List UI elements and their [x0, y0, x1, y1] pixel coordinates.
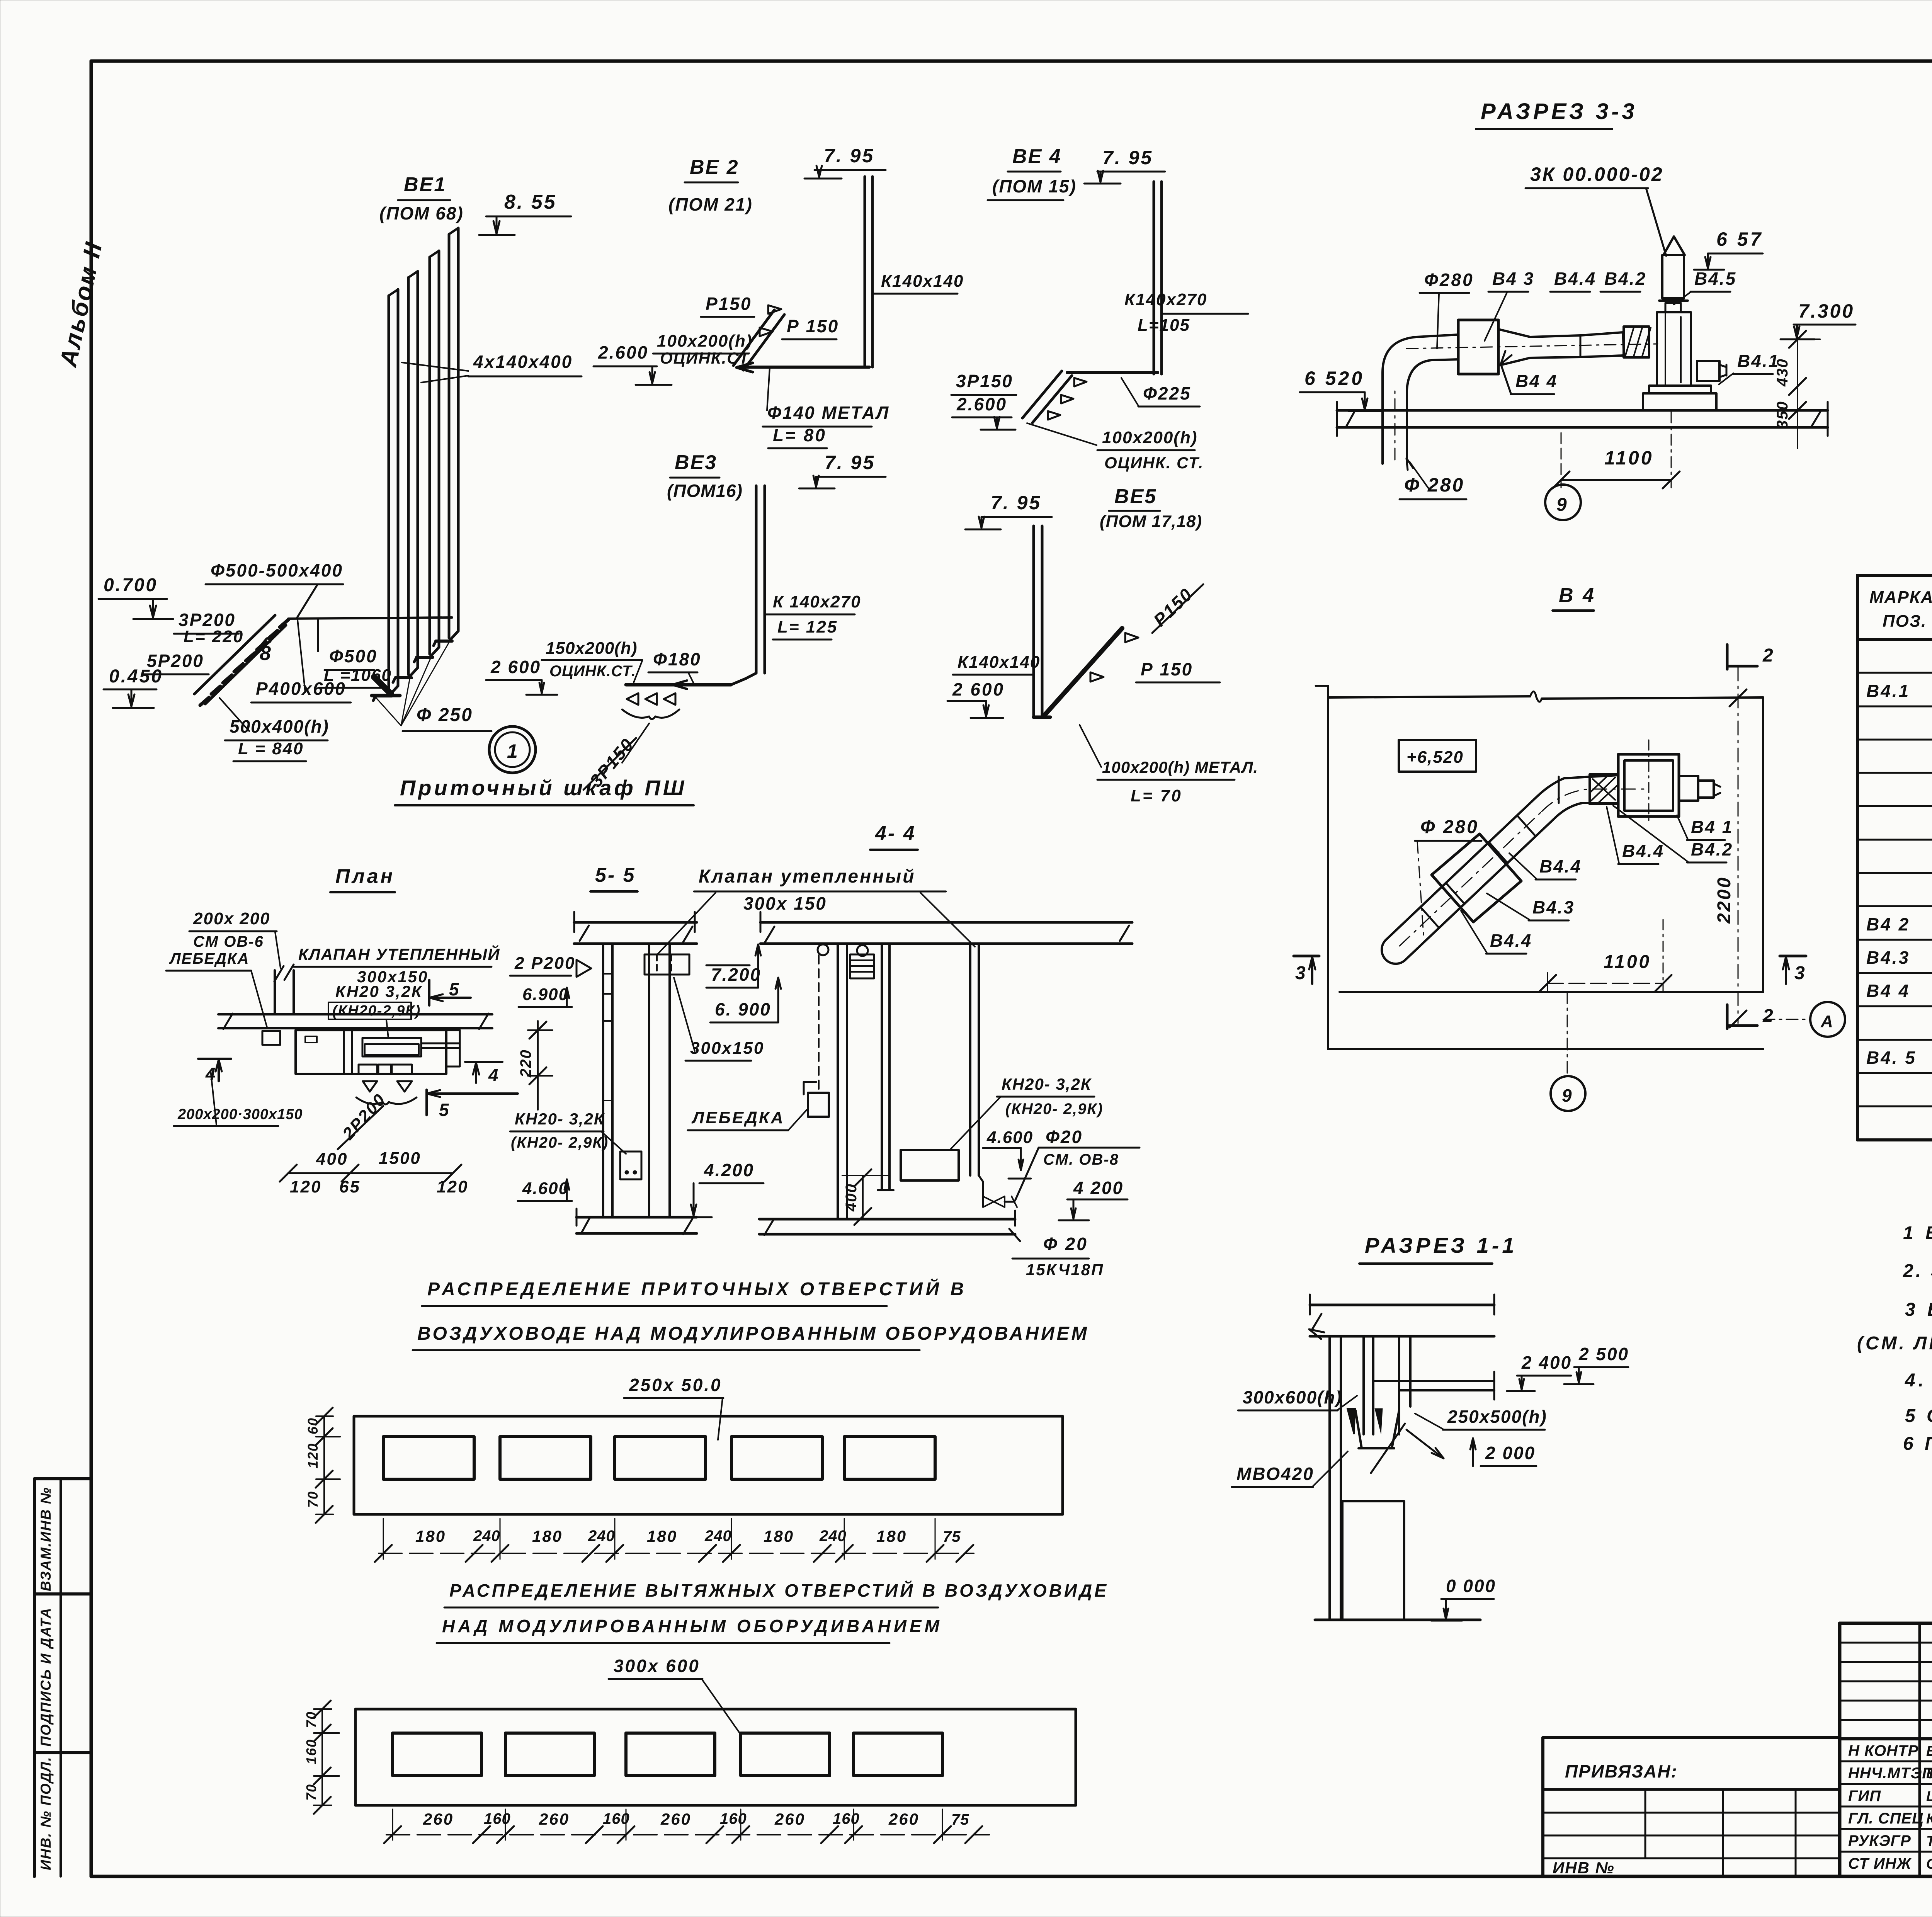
svg-text:В4.4: В4.4: [1554, 269, 1596, 289]
svg-text:Приточный шкаф ПШ: Приточный шкаф ПШ: [400, 776, 687, 800]
svg-text:ЛЕБЕДКА: ЛЕБЕДКА: [169, 950, 250, 967]
svg-text:300х 600: 300х 600: [614, 1656, 700, 1676]
svg-text:0 000: 0 000: [1446, 1576, 1496, 1596]
svg-text:А: А: [1820, 1012, 1834, 1031]
svg-text:СМ. ОВ-8: СМ. ОВ-8: [1043, 1151, 1119, 1168]
svg-text:БЕГАНСКАЯ: БЕГАНСКАЯ: [1926, 1766, 1932, 1781]
svg-text:250х 50.0: 250х 50.0: [629, 1375, 722, 1395]
svg-text:В4. 5: В4. 5: [1866, 1048, 1917, 1068]
svg-text:100х200(h): 100х200(h): [1102, 428, 1197, 447]
svg-text:6 520: 6 520: [1304, 367, 1364, 389]
svg-text:0.700: 0.700: [104, 575, 158, 595]
svg-text:ИНВ. № ПОДЛ.: ИНВ. № ПОДЛ.: [38, 1756, 54, 1870]
svg-text:2 000: 2 000: [1485, 1443, 1536, 1463]
svg-text:160: 160: [484, 1810, 511, 1827]
svg-text:7. 95: 7. 95: [991, 492, 1041, 514]
svg-text:Ф 250: Ф 250: [417, 705, 473, 725]
svg-text:200х200·300х150: 200х200·300х150: [177, 1106, 303, 1123]
svg-text:(ПОМ 15): (ПОМ 15): [992, 176, 1077, 196]
svg-text:КЛАПАН УТЕПЛЕННЫЙ: КЛАПАН УТЕПЛЕННЫЙ: [298, 944, 500, 963]
svg-text:1100: 1100: [1604, 952, 1651, 972]
svg-text:7.300: 7.300: [1798, 300, 1854, 322]
svg-text:ВЕ3: ВЕ3: [675, 451, 717, 474]
svg-text:КН20 3,2К: КН20 3,2К: [335, 982, 423, 1000]
svg-text:Ф20: Ф20: [1046, 1127, 1083, 1147]
svg-text:БЕЛОЦЕРКОВСКАЯ: БЕЛОЦЕРКОВСКАЯ: [1926, 1743, 1932, 1759]
svg-text:6 ПЛАН 1 ЭТАЖА К РАЗРЕЗУ: 6 ПЛАН 1 ЭТАЖА К РАЗРЕЗУ 1-1 СМ ЛИСТ ОВ-…: [1903, 1434, 1932, 1454]
svg-text:L = 840: L = 840: [238, 739, 304, 758]
svg-text:В4.1: В4.1: [1866, 681, 1910, 701]
svg-text:1500: 1500: [379, 1149, 421, 1168]
svg-text:4- 4: 4- 4: [875, 822, 916, 845]
svg-text:МАРКА,: МАРКА,: [1869, 588, 1932, 607]
svg-text:400: 400: [316, 1150, 348, 1169]
svg-text:Р150: Р150: [706, 294, 752, 314]
svg-text:430: 430: [1774, 358, 1791, 387]
svg-text:ОЦИНК. СТ.: ОЦИНК. СТ.: [1104, 454, 1204, 472]
svg-text:ПРИВЯЗАН:: ПРИВЯЗАН:: [1565, 1761, 1678, 1781]
svg-text:РАСПРЕДЕЛЕНИЕ ПРИТОЧНЫХ ОТВ: РАСПРЕДЕЛЕНИЕ ПРИТОЧНЫХ ОТВЕРСТИЙ В: [427, 1278, 967, 1300]
svg-text:В4.2: В4.2: [1691, 839, 1733, 859]
svg-text:ВЕ5: ВЕ5: [1114, 485, 1157, 508]
svg-text:Ф500: Ф500: [329, 646, 378, 666]
svg-text:L= 220: L= 220: [184, 627, 244, 646]
svg-text:160: 160: [720, 1810, 747, 1827]
svg-text:Ф180: Ф180: [653, 649, 701, 669]
svg-text:ВЕ 4: ВЕ 4: [1012, 145, 1062, 168]
svg-text:СМ ОВ-6: СМ ОВ-6: [193, 933, 264, 950]
svg-text:Клапан утепленный: Клапан утепленный: [699, 866, 915, 887]
svg-text:65: 65: [339, 1177, 361, 1196]
svg-text:75: 75: [943, 1528, 961, 1545]
svg-text:L= 125: L= 125: [777, 617, 838, 636]
svg-text:7. 95: 7. 95: [1102, 147, 1153, 168]
svg-text:В4 4: В4 4: [1866, 981, 1910, 1001]
svg-text:В 4: В 4: [1559, 584, 1596, 607]
svg-text:160: 160: [303, 1739, 319, 1764]
svg-text:Ф 20: Ф 20: [1043, 1234, 1088, 1254]
svg-text:ННЧ.МТЭП: ННЧ.МТЭП: [1848, 1765, 1932, 1782]
svg-text:4х140х400: 4х140х400: [473, 352, 573, 372]
svg-text:ВЕ1: ВЕ1: [404, 173, 446, 196]
svg-text:1100: 1100: [1604, 447, 1654, 469]
svg-text:2.600: 2.600: [598, 342, 648, 362]
svg-text:7.200: 7.200: [711, 964, 761, 985]
svg-text:2 600: 2 600: [952, 679, 1005, 699]
svg-text:6. 900: 6. 900: [715, 999, 771, 1019]
svg-text:L=105: L=105: [1138, 316, 1190, 335]
svg-text:3К 00.000-02: 3К 00.000-02: [1530, 163, 1664, 185]
svg-text:Р 150: Р 150: [1141, 659, 1193, 679]
svg-text:(ПОМ16): (ПОМ16): [667, 481, 743, 501]
svg-text:6 57: 6 57: [1716, 228, 1763, 250]
svg-text:СТ ИНЖ: СТ ИНЖ: [1848, 1855, 1912, 1872]
svg-text:ОЦИНК.СТ: ОЦИНК.СТ: [660, 349, 750, 367]
svg-text:4. КОНСТРУКЦИЮ ПРИТОЧНОГО ШК: 4. КОНСТРУКЦИЮ ПРИТОЧНОГО ШКАФА СМ. АС-9…: [1905, 1370, 1932, 1391]
svg-text:120: 120: [437, 1177, 468, 1196]
svg-text:70: 70: [305, 1491, 321, 1508]
svg-text:350: 350: [1774, 401, 1791, 429]
svg-text:180: 180: [647, 1527, 677, 1545]
svg-text:300х 150: 300х 150: [743, 893, 827, 913]
svg-text:220: 220: [517, 1049, 534, 1078]
svg-text:В4.2: В4.2: [1604, 269, 1646, 289]
svg-text:ИНВ №: ИНВ №: [1553, 1859, 1615, 1877]
svg-text:В4 2: В4 2: [1866, 914, 1910, 934]
svg-text:120: 120: [305, 1443, 321, 1468]
svg-text:ПОЗ.: ПОЗ.: [1883, 612, 1927, 631]
svg-text:100х200(h): 100х200(h): [657, 332, 752, 350]
svg-text:4.200: 4.200: [704, 1160, 754, 1180]
svg-text:4.600: 4.600: [522, 1179, 569, 1198]
svg-text:260: 260: [539, 1810, 570, 1828]
svg-text:4: 4: [488, 1065, 500, 1085]
svg-text:260: 260: [660, 1810, 691, 1828]
svg-text:(СМ. ЛИСТ ОВ2 П. 11): (СМ. ЛИСТ ОВ2 П. 11): [1857, 1333, 1932, 1354]
svg-text:ВЗАМ.ИНВ №: ВЗАМ.ИНВ №: [38, 1487, 54, 1591]
svg-text:В4 3: В4 3: [1492, 269, 1534, 289]
svg-text:Ф 280: Ф 280: [1420, 817, 1479, 837]
svg-text:4 200: 4 200: [1073, 1178, 1124, 1198]
svg-text:(КН20- 2,9К): (КН20- 2,9К): [511, 1134, 609, 1151]
svg-text:7. 95: 7. 95: [825, 452, 875, 473]
svg-text:ОЦИНК.СТ.: ОЦИНК.СТ.: [549, 663, 636, 680]
svg-text:L= 70: L= 70: [1131, 786, 1182, 805]
svg-text:К140х270: К140х270: [1124, 290, 1207, 309]
svg-text:НАД МОДУЛИРОВАННЫМ ОБОРУДИВ: НАД МОДУЛИРОВАННЫМ ОБОРУДИВАНИЕМ: [442, 1616, 942, 1636]
svg-text:70: 70: [303, 1784, 319, 1801]
svg-text:В4.4: В4.4: [1622, 841, 1664, 861]
svg-text:2.600: 2.600: [956, 394, 1007, 414]
svg-text:К 140х270: К 140х270: [773, 592, 861, 611]
svg-text:В4.3: В4.3: [1866, 947, 1910, 968]
svg-text:180: 180: [764, 1527, 794, 1545]
svg-text:Ф225: Ф225: [1143, 383, 1191, 403]
svg-text:1 В СКОБКАХ УКАЗАН НАГРЕВАТ: 1 В СКОБКАХ УКАЗАН НАГРЕВАТЕЛЬНЫЙ ПРИБОР…: [1903, 1222, 1932, 1243]
svg-text:5: 5: [439, 1100, 450, 1120]
svg-text:Ф140 МЕТАЛ: Ф140 МЕТАЛ: [767, 403, 889, 423]
svg-text:План: План: [335, 865, 395, 888]
svg-text:2 500: 2 500: [1578, 1344, 1629, 1364]
svg-text:2 Р200: 2 Р200: [514, 954, 575, 973]
svg-text:180: 180: [876, 1527, 907, 1545]
svg-text:L= 80: L= 80: [773, 425, 827, 445]
svg-text:120: 120: [290, 1177, 321, 1196]
svg-text:2200: 2200: [1714, 876, 1735, 924]
svg-text:100х200(h) МЕТАЛ.: 100х200(h) МЕТАЛ.: [1102, 758, 1258, 776]
svg-text:300х600(h): 300х600(h): [1243, 1387, 1342, 1407]
svg-text:300х150: 300х150: [690, 1039, 764, 1058]
svg-text:3: 3: [1794, 963, 1806, 983]
svg-text:70: 70: [303, 1711, 319, 1728]
svg-text:КН20- 3,2К: КН20- 3,2К: [515, 1110, 605, 1128]
svg-text:К140х140: К140х140: [881, 272, 964, 291]
svg-text:МВО420: МВО420: [1236, 1464, 1314, 1484]
svg-text:2 600: 2 600: [490, 657, 541, 677]
svg-text:ТИТОВА: ТИТОВА: [1926, 1833, 1932, 1849]
svg-text:200х 200: 200х 200: [193, 909, 270, 928]
svg-text:260: 260: [888, 1810, 919, 1828]
svg-text:(КН20- 2,9К): (КН20- 2,9К): [1005, 1101, 1103, 1118]
svg-text:240: 240: [588, 1527, 615, 1544]
svg-text:75: 75: [951, 1811, 969, 1828]
svg-text:260: 260: [774, 1810, 805, 1828]
svg-text:5- 5: 5- 5: [595, 864, 636, 886]
svg-text:1: 1: [507, 740, 519, 762]
svg-text:4: 4: [205, 1064, 217, 1084]
svg-text:Ф500-500х400: Ф500-500х400: [211, 560, 343, 580]
svg-text:Ф 280: Ф 280: [1404, 474, 1464, 496]
svg-text:В4.1: В4.1: [1737, 351, 1779, 371]
svg-text:7. 95: 7. 95: [824, 145, 874, 167]
svg-text:Ф280: Ф280: [1424, 270, 1474, 290]
svg-text:15КЧ18П: 15КЧ18П: [1026, 1260, 1104, 1279]
svg-text:ЛЕБЕДКА: ЛЕБЕДКА: [691, 1108, 785, 1127]
svg-text:В4.4: В4.4: [1539, 856, 1582, 876]
svg-text:(ПОМ 21): (ПОМ 21): [668, 194, 753, 214]
svg-text:2: 2: [1762, 645, 1774, 666]
svg-text:2: 2: [1762, 1006, 1774, 1026]
svg-text:В4 4: В4 4: [1515, 371, 1558, 391]
svg-text:ГИП: ГИП: [1848, 1788, 1881, 1805]
svg-text:3Р150: 3Р150: [956, 371, 1013, 391]
svg-text:КУКАРЕКО: КУКАРЕКО: [1926, 1811, 1932, 1827]
svg-text:9: 9: [1562, 1085, 1573, 1106]
svg-text:СТНРОСТЕНКО: СТНРОСТЕНКО: [1926, 1856, 1932, 1872]
svg-text:8: 8: [260, 642, 271, 665]
svg-text:5: 5: [449, 979, 460, 999]
svg-text:180: 180: [532, 1527, 563, 1545]
svg-text:8. 55: 8. 55: [504, 191, 557, 213]
svg-text:3: 3: [1295, 963, 1307, 983]
svg-text:2 400: 2 400: [1521, 1352, 1572, 1373]
svg-text:(КН20-2,9К): (КН20-2,9К): [332, 1003, 421, 1019]
svg-text:В4.3: В4.3: [1532, 897, 1575, 917]
svg-text:РАСПРЕДЕЛЕНИЕ ВЫТЯЖНЫХ ОТВЕ: РАСПРЕДЕЛЕНИЕ ВЫТЯЖНЫХ ОТВЕРСТИЙ В ВОЗДУ…: [449, 1580, 1109, 1601]
svg-text:2. ЗАСЛОНКУ №8 ЗАКРЫТЬ (: 2. ЗАСЛОНКУ №8 ЗАКРЫТЬ ( СИСТЕМА ВЕ1).: [1903, 1261, 1932, 1281]
svg-text:260: 260: [423, 1810, 454, 1828]
svg-text:РАЗРЕЗ 1-1: РАЗРЕЗ 1-1: [1365, 1233, 1517, 1257]
svg-text:250х500(h): 250х500(h): [1447, 1407, 1547, 1427]
svg-text:400: 400: [843, 1183, 860, 1212]
svg-text:ВЕ 2: ВЕ 2: [690, 156, 739, 179]
svg-text:ВОЗДУХОВОДЕ НАД МОДУЛИРОВАНН: ВОЗДУХОВОДЕ НАД МОДУЛИРОВАННЫМ ОБОРУДОВА…: [417, 1323, 1089, 1344]
svg-text:+6,520: +6,520: [1406, 748, 1464, 767]
svg-text:(ПОМ 17,18): (ПОМ 17,18): [1100, 512, 1202, 531]
svg-text:В4.4: В4.4: [1490, 930, 1532, 951]
svg-text:180: 180: [415, 1527, 446, 1545]
svg-text:К140х140: К140х140: [957, 653, 1040, 672]
svg-text:3 В СИСТЕМЕ В4 ВОЗДУХОВОД: 3 В СИСТЕМЕ В4 ВОЗДУХОВОД НА КРОВЛЕ ИЗОЛ…: [1905, 1300, 1932, 1320]
svg-text:5 ОСНОВАНИЕ ПОД ВЕНТИЛЯТОР: 5 ОСНОВАНИЕ ПОД ВЕНТИЛЯТОР СИСТЕМЫ В4 СМ…: [1905, 1406, 1932, 1426]
svg-text:240: 240: [473, 1527, 500, 1544]
svg-text:РУКЭГР: РУКЭГР: [1848, 1832, 1911, 1849]
svg-text:60: 60: [305, 1417, 321, 1434]
svg-text:В4 1: В4 1: [1691, 817, 1733, 837]
svg-text:5Р200: 5Р200: [147, 651, 204, 671]
svg-text:(ПОМ 68): (ПОМ 68): [379, 203, 464, 223]
svg-text:Н КОНТР: Н КОНТР: [1848, 1742, 1918, 1759]
svg-text:В4.5: В4.5: [1694, 269, 1736, 289]
svg-text:4.600: 4.600: [986, 1128, 1033, 1147]
svg-text:240: 240: [704, 1527, 732, 1544]
svg-text:Р 150: Р 150: [787, 316, 839, 336]
svg-text:ГЛ. СПЕЦ: ГЛ. СПЕЦ: [1848, 1810, 1923, 1827]
svg-text:150х200(h): 150х200(h): [546, 639, 637, 658]
svg-text:9: 9: [1556, 495, 1568, 515]
svg-text:240: 240: [819, 1527, 847, 1544]
svg-text:ШЕЛЕГВИЛЯ: ШЕЛЕГВИЛЯ: [1926, 1788, 1932, 1804]
svg-text:ПОДПИСЬ И ДАТА: ПОДПИСЬ И ДАТА: [38, 1607, 54, 1747]
svg-text:160: 160: [833, 1810, 860, 1827]
svg-text:РАЗРЕЗ 3-3: РАЗРЕЗ 3-3: [1481, 99, 1638, 124]
svg-text:6.900: 6.900: [522, 985, 569, 1004]
svg-text:КН20- 3,2К: КН20- 3,2К: [1002, 1075, 1092, 1093]
